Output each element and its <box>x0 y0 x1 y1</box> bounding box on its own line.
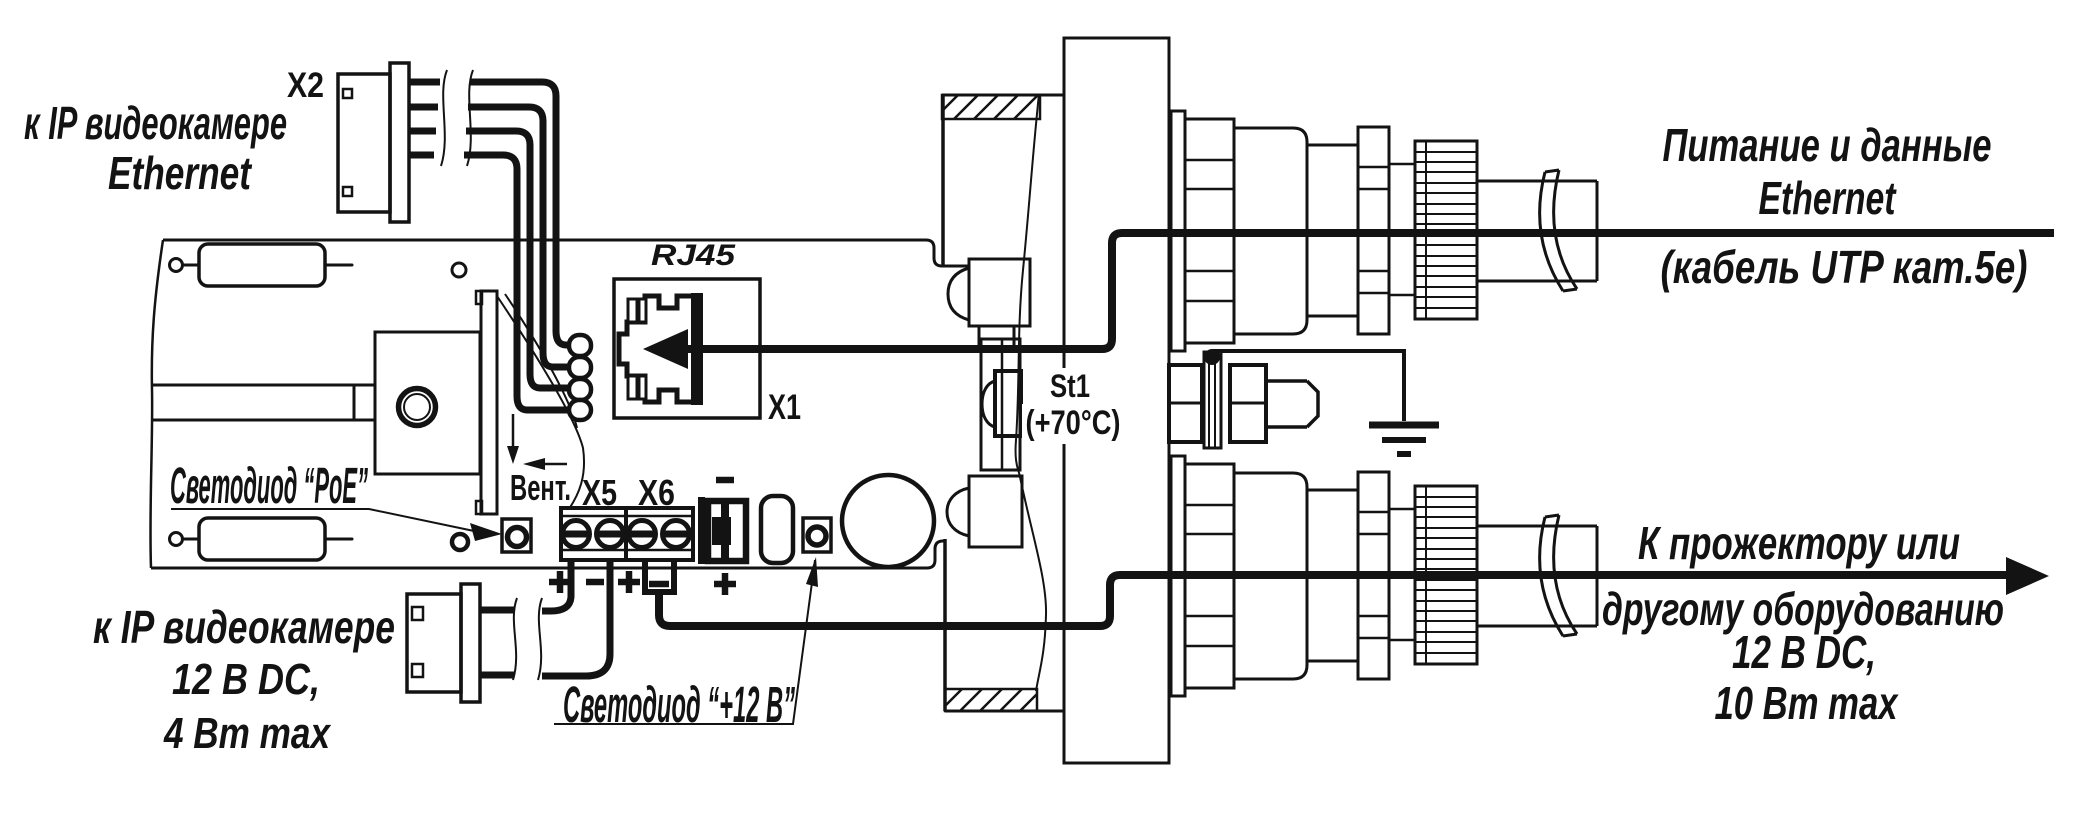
connector X2 key squares <box>343 89 352 98</box>
heatsink screw inner circle <box>404 394 430 420</box>
terminal screw 2 <box>597 521 624 548</box>
wire 4 X2 to transformer <box>409 155 570 410</box>
power connector X7 side bar <box>698 497 705 564</box>
svg-text:12 В DC,: 12 В DC, <box>172 655 320 704</box>
polarity mark plus below power connector <box>714 573 736 595</box>
PCB board outline top edge <box>163 240 969 266</box>
mounting plate <box>1064 38 1169 763</box>
svg-text:Вент.: Вент. <box>510 467 571 508</box>
svg-text:к IP видеокамере: к IP видеокамере <box>24 97 287 149</box>
electrolytic capacitor (big circle) <box>842 475 934 567</box>
svg-text:St1: St1 <box>1050 368 1090 404</box>
test pad hole (top) <box>452 263 466 277</box>
ethernet thick wire RJ45 to top cable <box>686 233 2054 349</box>
thermostat St1 body <box>995 371 1021 436</box>
resistor (top, body) <box>199 244 325 286</box>
svg-text:X1: X1 <box>768 388 801 427</box>
wire 3 X2 to transformer <box>409 131 570 388</box>
terminal screw 4 <box>663 521 690 548</box>
terminal block X5/X6 body <box>561 508 693 560</box>
svg-text:4 Вт max: 4 Вт max <box>163 709 331 758</box>
PCB board left break edge <box>150 240 163 568</box>
resistor top right lead <box>325 264 352 267</box>
wire - from X5 to 12V connector <box>480 558 610 676</box>
connector 12V DC mating plate <box>461 584 480 702</box>
ground symbol <box>1369 422 1439 429</box>
ground bolt washer stack <box>1204 352 1221 448</box>
polarity mark minus X5 <box>586 579 604 586</box>
resistor bottom left lead and pin circle <box>183 538 199 541</box>
ethernet signal arrow into RJ45 <box>643 329 688 369</box>
RJ45 jack outline <box>619 296 700 402</box>
svg-text:Светодиод “+12 В”: Светодиод “+12 В” <box>563 676 795 733</box>
connector X2 mating plate <box>390 63 409 222</box>
polarity mark minus above power connector <box>716 477 734 484</box>
terminal screw 3 <box>629 521 656 548</box>
svg-text:10 Вт max: 10 Вт max <box>1715 677 1900 729</box>
wire funnel curve 1 <box>497 296 584 509</box>
cable clamp top <box>969 259 1030 326</box>
connector 12V DC key squares <box>412 607 423 620</box>
svg-text:12 В DC,: 12 В DC, <box>1732 626 1876 678</box>
svg-text:К прожектору или: К прожектору или <box>1638 517 1960 569</box>
terminal screw 1 <box>563 521 590 548</box>
wire break marks 12V <box>513 598 542 680</box>
polarity mark plus X6 <box>618 571 640 593</box>
resistor (bottom, body) <box>199 518 325 560</box>
LED "+12 В" <box>803 518 831 552</box>
wire break marks X2 <box>441 70 473 166</box>
resistor bottom right lead <box>325 538 352 541</box>
ground bolt shank and tip <box>1266 381 1318 427</box>
enclosure wall top section <box>942 94 1064 97</box>
mounting bracket <box>481 291 497 514</box>
fan airflow arrow left <box>545 463 567 466</box>
svg-text:Светодиод “PoE”: Светодиод “PoE” <box>170 457 368 514</box>
leader line LED PoE <box>171 509 474 531</box>
RJ45 jack body bar <box>691 293 703 405</box>
ground bolt left nut <box>1169 365 1202 442</box>
wire 2 X2 to transformer <box>409 107 570 367</box>
svg-text:Питание и данные: Питание и данные <box>1663 119 1992 171</box>
svg-text:(кабель UTP кат.5е): (кабель UTP кат.5е) <box>1661 241 2028 293</box>
enclosure wall bottom section <box>945 710 1064 713</box>
svg-text:RJ45: RJ45 <box>651 239 737 272</box>
enclosure wall bottom hatched section <box>945 689 1037 711</box>
output arrowhead <box>2006 557 2049 595</box>
svg-text:к IP видеокамере: к IP видеокамере <box>93 601 395 653</box>
label St1 white backing <box>1040 368 1106 404</box>
svg-text:X6: X6 <box>638 472 675 513</box>
polarity mark minus X6 <box>649 581 669 588</box>
fan airflow arrow down <box>512 414 515 447</box>
test pad hole (bottom) <box>452 534 468 550</box>
PCB board outline bottom edge <box>151 541 945 568</box>
svg-text:Ethernet: Ethernet <box>108 147 252 199</box>
12V thick wire X6 to bottom cable <box>659 575 2015 626</box>
wire funnel curve 2 <box>505 294 577 428</box>
polarity mark plus X5 <box>549 571 571 593</box>
cable clamp bottom <box>969 476 1022 547</box>
connector 12V DC body <box>407 594 461 692</box>
svg-text:(+70°C): (+70°C) <box>1026 404 1121 442</box>
svg-text:X5: X5 <box>582 472 617 513</box>
thermostat St1 bracket <box>981 339 1020 470</box>
ground bolt right nut <box>1230 365 1266 442</box>
heatsink screw (bold ring) <box>399 389 436 426</box>
svg-text:X2: X2 <box>287 66 324 105</box>
wire + from X5 to 12V connector <box>480 558 571 611</box>
LED "PoE" <box>502 519 531 552</box>
ground wire terminal dot <box>1204 349 1220 365</box>
leader line LED +12V <box>554 560 815 724</box>
transformer pin bumps <box>569 335 591 356</box>
cable gland top <box>1171 111 1597 351</box>
resistor top left lead and pin circle <box>183 264 199 267</box>
ground wire <box>1212 351 1404 421</box>
wire 1 X2 to transformer <box>409 82 570 345</box>
enclosure wall top hatched section <box>942 95 1040 119</box>
cable gland bottom <box>1171 456 1597 696</box>
wire bracket from X6 <box>642 559 677 592</box>
capacitor (rounded rect) <box>761 496 793 563</box>
svg-text:Ethernet: Ethernet <box>1759 172 1897 224</box>
board slot arm <box>152 385 375 420</box>
RJ45 connector X1 box <box>614 279 760 418</box>
power connector X7 body <box>708 501 746 561</box>
RJ45 pin slots <box>628 299 637 322</box>
heatsink block <box>375 332 480 474</box>
enclosure wall break line <box>1016 94 1047 691</box>
connector X2 body <box>338 74 390 212</box>
